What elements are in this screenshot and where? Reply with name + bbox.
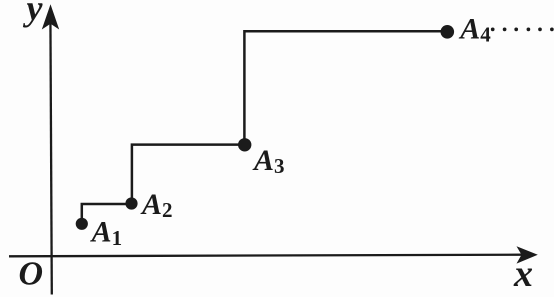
staircase polyline A1->A2->A3->A4	[82, 31, 448, 224]
x-axis	[9, 255, 523, 257]
x-axis arrowhead	[517, 246, 538, 263]
y-axis	[50, 16, 51, 295]
point A2	[125, 197, 137, 209]
svg-text:y: y	[23, 0, 44, 28]
svg-text:O: O	[19, 256, 44, 293]
dotted continuation	[491, 28, 554, 32]
point A4	[441, 25, 455, 39]
svg-text:x: x	[513, 253, 533, 295]
y-axis arrowhead	[42, 4, 59, 29]
point A3	[238, 138, 251, 151]
point A1	[76, 218, 88, 230]
